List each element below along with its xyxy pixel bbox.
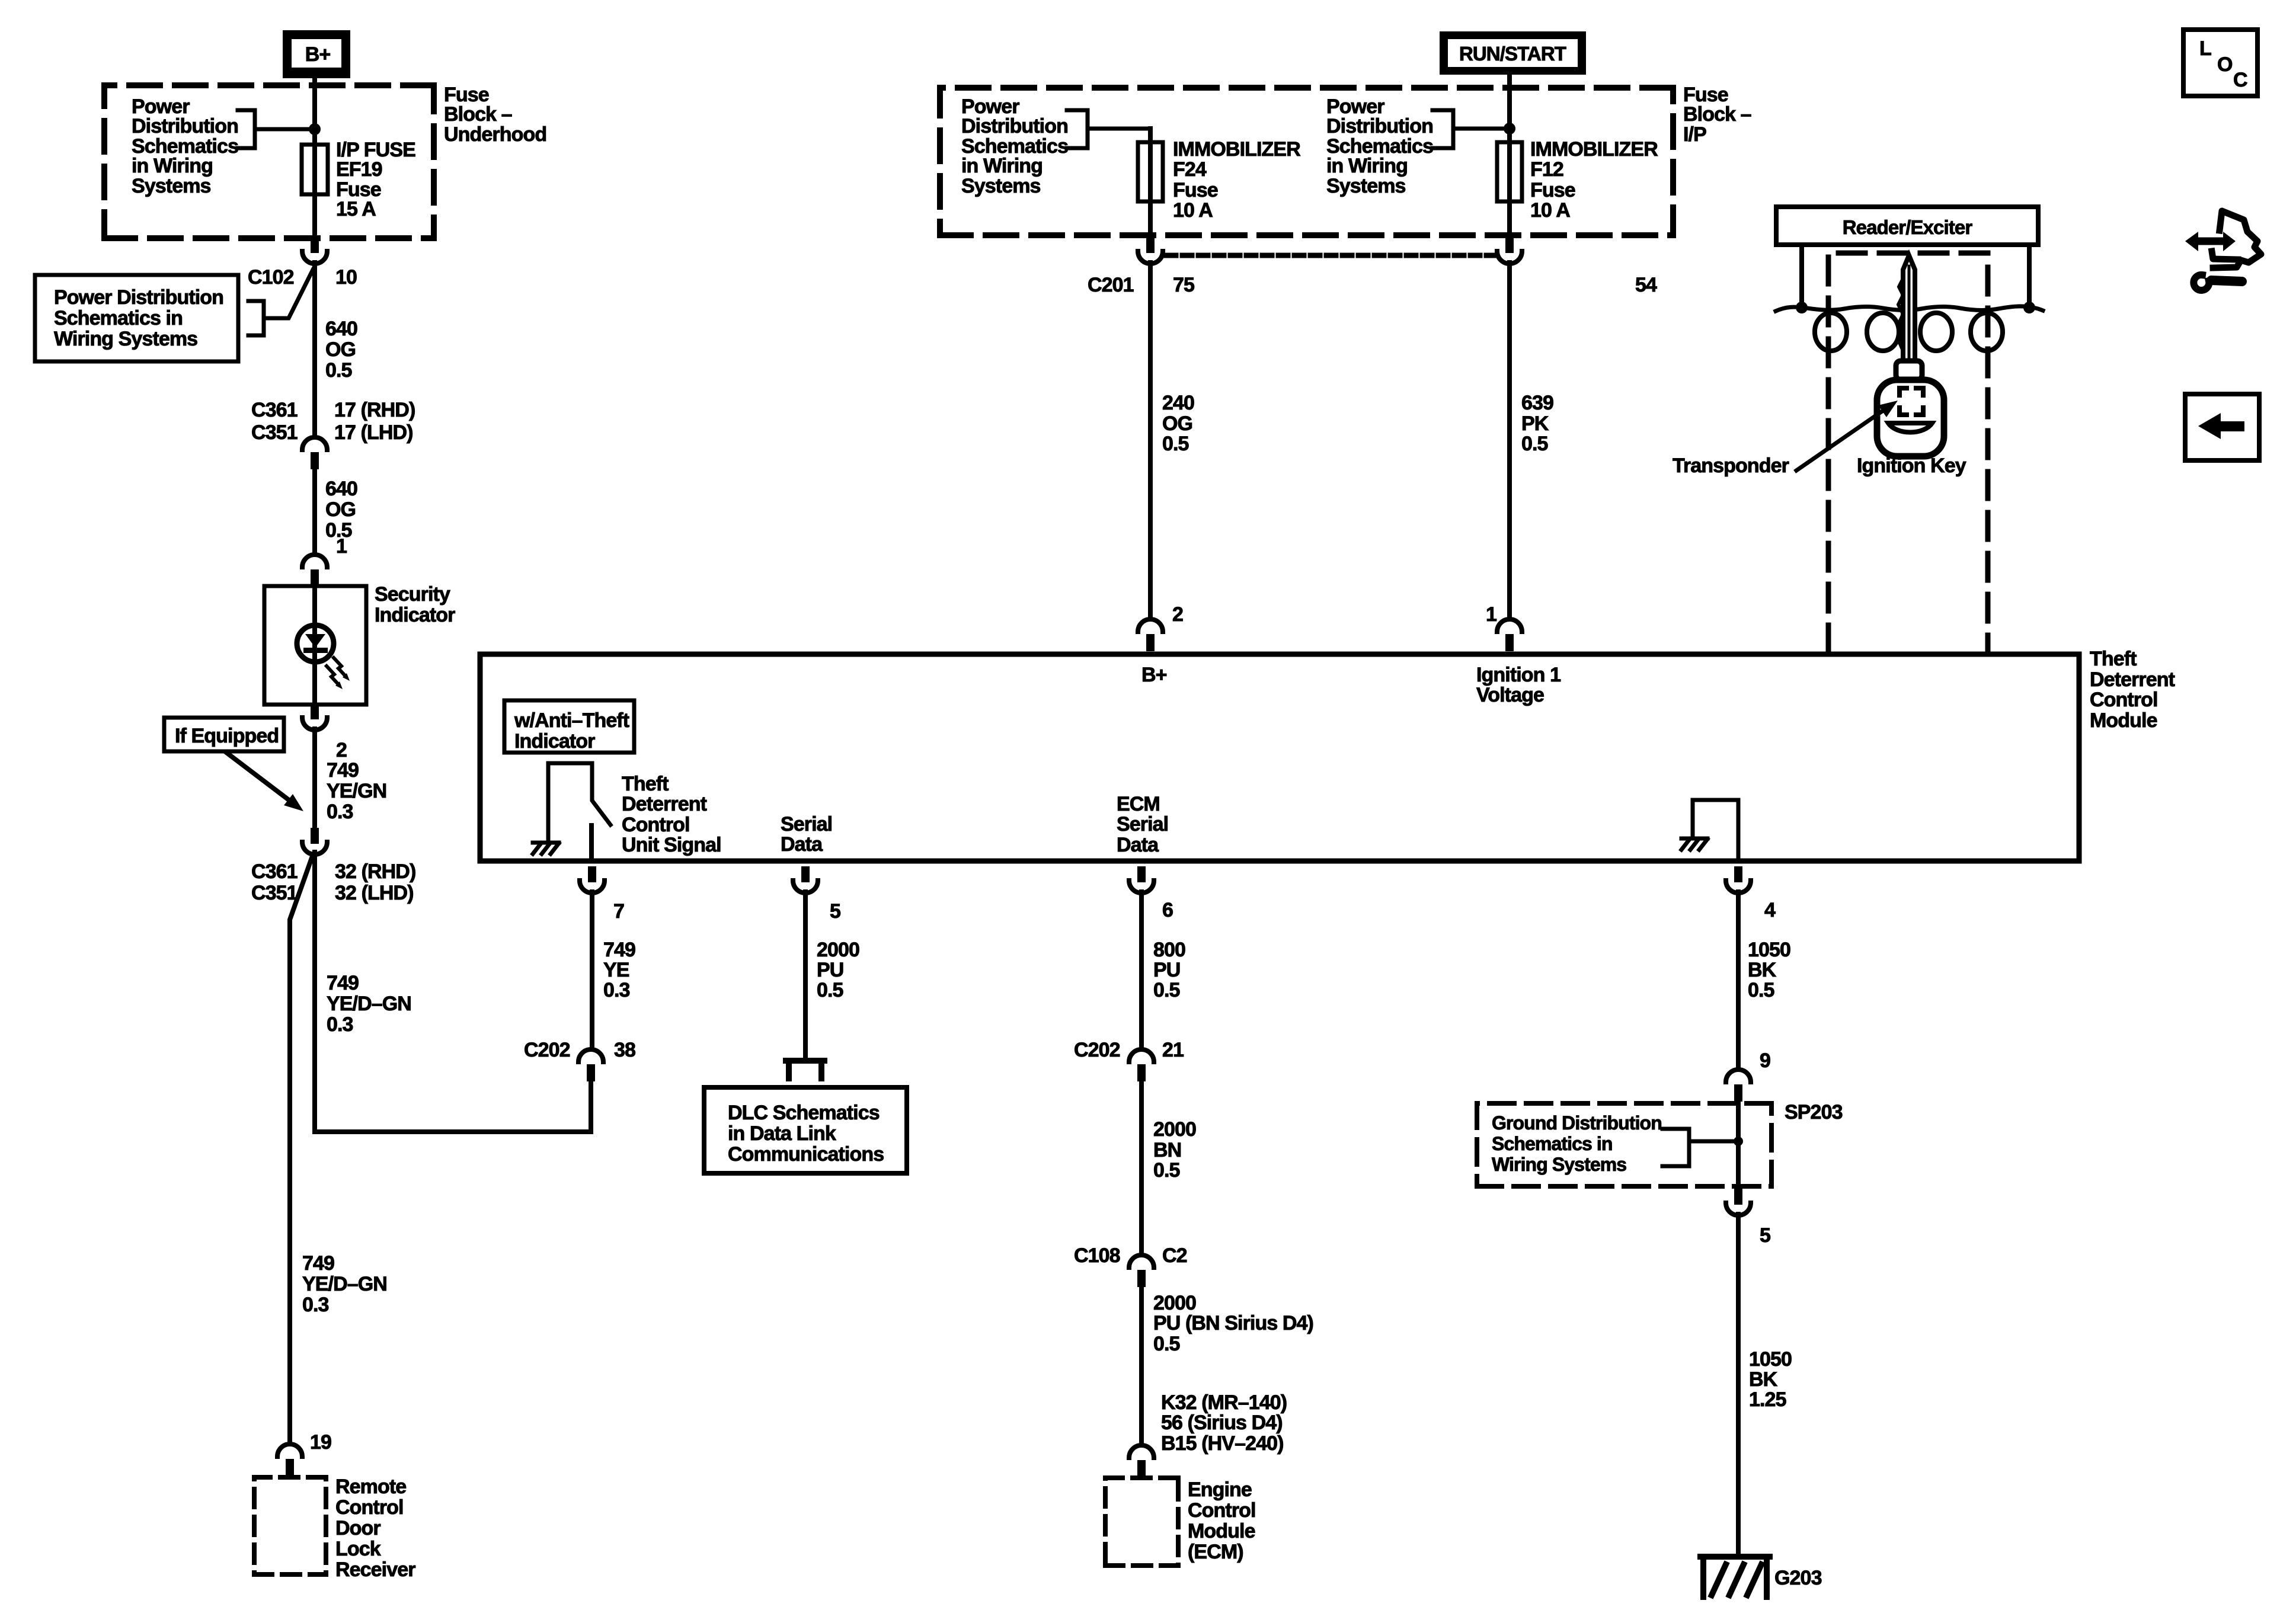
- svg-text:Ground Distribution: Ground Distribution: [1492, 1112, 1662, 1134]
- svg-text:YE/D–GN: YE/D–GN: [327, 993, 411, 1015]
- svg-text:75: 75: [1173, 274, 1194, 296]
- svg-text:Deterrent: Deterrent: [2090, 668, 2175, 691]
- svg-text:Serial: Serial: [1117, 813, 1168, 836]
- bracket and leader to C102: [248, 270, 313, 335]
- svg-text:1050: 1050: [1748, 939, 1790, 961]
- connector pin 2 module: [1138, 619, 1163, 632]
- svg-text:Remote: Remote: [335, 1475, 406, 1498]
- svg-text:0.5: 0.5: [1153, 1333, 1180, 1355]
- svg-text:Indicator: Indicator: [514, 730, 595, 753]
- connector C108 pin C2: [1129, 1255, 1154, 1267]
- svg-text:1: 1: [1486, 603, 1496, 626]
- bracket reference underhood power distribution: [238, 110, 315, 148]
- theft deterrent control module box: [480, 654, 2079, 861]
- connector pin 2 security indicator: [311, 703, 319, 719]
- svg-text:Transponder: Transponder: [1673, 454, 1789, 477]
- wire 640 OG 0.5 (C102 to C361): [312, 263, 317, 437]
- svg-text:Fuse: Fuse: [1173, 179, 1218, 201]
- svg-text:0.3: 0.3: [302, 1294, 329, 1316]
- key cuts: [1898, 279, 1903, 351]
- transponder target square: [1900, 388, 1923, 415]
- svg-text:800: 800: [1153, 939, 1185, 961]
- svg-text:Systems: Systems: [132, 175, 211, 197]
- svg-text:0.5: 0.5: [1748, 979, 1774, 1001]
- svg-text:Power Distribution: Power Distribution: [54, 286, 223, 309]
- LED arrows: [334, 658, 346, 676]
- wire reader left leg: [1799, 245, 1804, 308]
- icon double arrow: [2195, 238, 2226, 245]
- key bow: [1877, 380, 1944, 456]
- remote control door lock receiver dashed box: [254, 1477, 326, 1574]
- connector pin 6: [1137, 866, 1146, 882]
- svg-text:BK: BK: [1749, 1368, 1778, 1391]
- module internal contact pin 7: [589, 825, 594, 861]
- wire 640 OG 0.5 to security indicator: [312, 468, 317, 554]
- svg-text:38: 38: [614, 1039, 635, 1061]
- svg-text:Control: Control: [622, 814, 690, 836]
- svg-text:Distribution: Distribution: [1326, 115, 1433, 137]
- svg-text:PU: PU: [817, 959, 843, 981]
- svg-text:w/Anti–Theft: w/Anti–Theft: [514, 709, 629, 732]
- svg-text:0.5: 0.5: [817, 979, 843, 1001]
- svg-text:DLC Schematics: DLC Schematics: [728, 1102, 880, 1124]
- svg-text:Indicator: Indicator: [375, 604, 455, 626]
- svg-text:Block –: Block –: [444, 103, 512, 126]
- coil loop 2: [1867, 313, 1899, 351]
- svg-text:If Equipped: If Equipped: [175, 725, 279, 747]
- svg-text:2: 2: [336, 739, 347, 761]
- junction dot F12 feed: [1504, 123, 1515, 135]
- svg-text:B+: B+: [305, 43, 331, 66]
- svg-text:32 (LHD): 32 (LHD): [335, 882, 414, 904]
- svg-text:C: C: [2233, 69, 2247, 91]
- svg-text:Control: Control: [1188, 1499, 1256, 1522]
- svg-text:10: 10: [335, 266, 357, 289]
- fuse EF19 15A: [302, 145, 328, 194]
- wire 639 PK 0.5: [1507, 263, 1512, 619]
- svg-text:5: 5: [1760, 1224, 1770, 1247]
- if equipped note box: [164, 718, 284, 751]
- svg-text:ECM: ECM: [1117, 793, 1160, 815]
- svg-text:C102: C102: [248, 266, 294, 289]
- power symbol RUN/START: [1440, 31, 1586, 75]
- connector pin 4: [1734, 866, 1742, 882]
- svg-text:9: 9: [1760, 1049, 1770, 1072]
- icon wrench: [2193, 275, 2209, 290]
- svg-text:Schematics in: Schematics in: [1492, 1133, 1613, 1154]
- svg-text:Systems: Systems: [1326, 175, 1406, 197]
- svg-text:C361: C361: [251, 399, 298, 421]
- wire B+ to fuse EF19: [312, 78, 317, 145]
- wire through splice SP203: [1736, 1101, 1741, 1189]
- DLC schematics box: [704, 1087, 907, 1173]
- svg-text:Data: Data: [781, 833, 823, 856]
- svg-text:YE: YE: [603, 959, 629, 981]
- svg-text:640: 640: [325, 478, 357, 500]
- wire 749 YE 0.3: [590, 892, 594, 1049]
- svg-text:Engine: Engine: [1188, 1478, 1252, 1501]
- svg-text:0.5: 0.5: [1521, 433, 1548, 455]
- svg-text:0.3: 0.3: [327, 1013, 353, 1036]
- svg-text:7: 7: [613, 900, 624, 923]
- svg-text:21: 21: [1162, 1039, 1184, 1061]
- coil loop 3: [1920, 313, 1952, 351]
- svg-text:10 A: 10 A: [1530, 199, 1570, 222]
- if equipped arrow: [226, 753, 290, 801]
- svg-text:640: 640: [325, 318, 357, 340]
- svg-text:OG: OG: [325, 498, 356, 521]
- svg-text:F12: F12: [1530, 158, 1563, 181]
- svg-text:O: O: [2217, 53, 2233, 76]
- connector pin 1 security indicator: [302, 555, 327, 567]
- svg-text:Voltage: Voltage: [1476, 684, 1544, 706]
- svg-text:4: 4: [1764, 899, 1776, 921]
- svg-text:Theft: Theft: [622, 773, 669, 795]
- svg-text:Ignition Key: Ignition Key: [1857, 454, 1966, 477]
- connector C201 pin 54: [1505, 237, 1514, 253]
- wire 2000 PU 0.5: [803, 892, 808, 1061]
- svg-text:PU (BN Sirius D4): PU (BN Sirius D4): [1153, 1312, 1313, 1334]
- svg-text:IMMOBILIZER: IMMOBILIZER: [1530, 138, 1658, 161]
- svg-text:1.25: 1.25: [1749, 1388, 1786, 1411]
- svg-text:6: 6: [1162, 899, 1173, 921]
- connector C361/C351 pin 32: [311, 828, 319, 844]
- svg-text:B15 (HV–240): B15 (HV–240): [1161, 1432, 1284, 1455]
- DLC pigtail bracket: [786, 1061, 824, 1078]
- wire F24 to C201-75: [1148, 201, 1153, 237]
- wire EF19 to C102: [312, 194, 317, 237]
- exciter coil line: [1776, 306, 2043, 311]
- svg-text:C108: C108: [1074, 1244, 1120, 1267]
- svg-text:2000: 2000: [1153, 1292, 1196, 1314]
- svg-text:749: 749: [327, 759, 359, 782]
- svg-text:Data: Data: [1117, 834, 1159, 856]
- wire F12 to C201-54: [1507, 201, 1512, 237]
- power symbol B+ (battery feed): [283, 30, 350, 78]
- icon LOC box: [2183, 30, 2257, 96]
- svg-text:240: 240: [1162, 392, 1194, 414]
- ground G203 symbol: [1700, 1557, 1770, 1597]
- svg-text:YE/GN: YE/GN: [327, 780, 386, 802]
- fuse F24 10A immobilizer: [1148, 129, 1153, 142]
- svg-text:1: 1: [336, 535, 347, 558]
- wire 749 YE/D-GN to door lock receiver: [290, 854, 313, 1443]
- svg-text:L: L: [2199, 37, 2211, 60]
- svg-text:5: 5: [830, 900, 840, 923]
- connector SP203 pin 9: [1726, 1070, 1751, 1082]
- svg-text:0.3: 0.3: [327, 801, 353, 823]
- svg-text:0.5: 0.5: [1153, 979, 1180, 1001]
- svg-text:OG: OG: [325, 338, 356, 361]
- key neck: [1896, 361, 1922, 380]
- svg-text:Receiver: Receiver: [335, 1558, 415, 1581]
- bracket reference F24: [1067, 110, 1150, 148]
- svg-text:0.5: 0.5: [1153, 1159, 1180, 1182]
- connector C102 pin 10: [311, 237, 319, 253]
- junction dot EF19 feed: [309, 123, 321, 135]
- svg-text:(ECM): (ECM): [1188, 1541, 1243, 1563]
- bracket reference F12: [1432, 110, 1510, 148]
- svg-text:I/P: I/P: [1683, 123, 1706, 146]
- wire 1050 BK 1.25: [1736, 1214, 1741, 1554]
- svg-text:Distribution: Distribution: [961, 115, 1068, 137]
- wire 1050 BK 0.5: [1736, 892, 1741, 1069]
- svg-text:RUN/START: RUN/START: [1459, 43, 1566, 65]
- fuse block - I/P dashed box: [940, 88, 1673, 235]
- svg-text:Wiring Systems: Wiring Systems: [54, 328, 197, 350]
- module internal switch to ground: [548, 763, 610, 844]
- svg-text:B+: B+: [1141, 664, 1167, 686]
- svg-text:BN: BN: [1153, 1139, 1181, 1161]
- note box w/Anti-Theft Indicator: [504, 700, 634, 753]
- svg-text:0.3: 0.3: [603, 979, 630, 1001]
- wire 2000 PU (BN Sirius D4) 0.5: [1139, 1286, 1144, 1445]
- svg-text:in Wiring: in Wiring: [132, 155, 213, 177]
- svg-text:Wiring Systems: Wiring Systems: [1492, 1154, 1626, 1175]
- svg-text:F24: F24: [1173, 158, 1207, 181]
- svg-text:PU: PU: [1153, 959, 1180, 981]
- svg-text:OG: OG: [1162, 412, 1192, 435]
- svg-text:Ignition 1: Ignition 1: [1476, 664, 1560, 686]
- svg-text:EF19: EF19: [336, 158, 382, 181]
- connector ECM pin: [1129, 1445, 1154, 1458]
- svg-text:C361: C361: [251, 860, 298, 883]
- svg-text:Block –: Block –: [1683, 103, 1751, 126]
- svg-text:Control: Control: [335, 1496, 404, 1519]
- svg-text:15 A: 15 A: [336, 198, 376, 220]
- wire through security indicator: [312, 586, 317, 705]
- wire RUN/START to F12: [1507, 75, 1512, 145]
- module internal ground pin 4: [1693, 800, 1738, 861]
- svg-text:C351: C351: [251, 882, 298, 904]
- svg-text:Lock: Lock: [335, 1538, 381, 1560]
- svg-text:in Data Link: in Data Link: [728, 1122, 836, 1145]
- connector pin 5 splice out: [1734, 1189, 1742, 1205]
- svg-text:56 (Sirius D4): 56 (Sirius D4): [1161, 1411, 1283, 1434]
- svg-text:in Wiring: in Wiring: [961, 155, 1043, 177]
- svg-text:749: 749: [302, 1252, 334, 1275]
- svg-text:17 (RHD): 17 (RHD): [334, 399, 415, 421]
- wire to C361 pin 32: [312, 729, 317, 828]
- svg-text:BK: BK: [1748, 959, 1777, 981]
- svg-text:C201: C201: [1088, 274, 1134, 296]
- svg-text:IMMOBILIZER: IMMOBILIZER: [1173, 138, 1300, 161]
- coil loop 1: [1815, 313, 1847, 351]
- wire 2000 BN 0.5: [1139, 1081, 1144, 1254]
- svg-text:C351: C351: [251, 421, 298, 444]
- connector C202 pin 21: [1129, 1049, 1154, 1062]
- svg-text:G203: G203: [1774, 1567, 1822, 1589]
- svg-text:Reader/Exciter: Reader/Exciter: [1843, 216, 1973, 238]
- svg-text:1050: 1050: [1749, 1348, 1792, 1371]
- svg-text:749: 749: [603, 939, 635, 961]
- ground distribution dashed box: [1477, 1103, 1771, 1186]
- fuse F12 10A immobilizer: [1497, 142, 1522, 201]
- svg-text:Schematics in: Schematics in: [54, 307, 183, 329]
- fuse block - underhood dashed box: [104, 85, 434, 238]
- connector pin 1 module: [1497, 619, 1522, 632]
- connector pin 7: [588, 866, 596, 882]
- svg-text:Communications: Communications: [728, 1143, 884, 1166]
- svg-text:0.5: 0.5: [1162, 433, 1189, 455]
- svg-text:Underhood: Underhood: [444, 123, 546, 146]
- svg-text:54: 54: [1635, 274, 1657, 296]
- svg-text:Unit Signal: Unit Signal: [622, 834, 721, 856]
- security indicator lamp box: [264, 586, 366, 705]
- svg-text:SP203: SP203: [1785, 1101, 1843, 1124]
- svg-text:K32 (MR–140): K32 (MR–140): [1161, 1391, 1287, 1414]
- svg-text:Serial: Serial: [781, 813, 832, 836]
- connector C361/C351 pin 17: [302, 437, 327, 450]
- svg-text:C2: C2: [1162, 1244, 1187, 1267]
- key bow smile: [1888, 423, 1932, 433]
- svg-text:10 A: 10 A: [1173, 199, 1213, 222]
- svg-text:Module: Module: [1188, 1520, 1255, 1542]
- svg-text:2000: 2000: [817, 939, 859, 961]
- ground chassis right: [1681, 838, 1707, 850]
- svg-text:Theft: Theft: [2090, 648, 2137, 670]
- note box Power Distribution Schematics in Wiring Systems (left): [35, 275, 238, 361]
- svg-text:639: 639: [1521, 392, 1553, 414]
- LED symbol security indicator: [297, 625, 334, 662]
- svg-text:Fuse: Fuse: [1530, 179, 1575, 201]
- key zone dashed boundary: [1828, 253, 1988, 652]
- icon back arrow box: [2185, 394, 2259, 460]
- engine control module dashed box: [1105, 1478, 1178, 1566]
- junction dot coil left: [1796, 302, 1808, 313]
- connector pin 19 receiver: [277, 1444, 302, 1457]
- svg-text:19: 19: [310, 1431, 331, 1454]
- svg-text:749: 749: [327, 972, 359, 994]
- svg-text:32 (RHD): 32 (RHD): [335, 860, 415, 883]
- svg-text:Deterrent: Deterrent: [622, 793, 707, 815]
- svg-text:17 (LHD): 17 (LHD): [334, 421, 413, 444]
- svg-text:Systems: Systems: [961, 175, 1041, 197]
- svg-text:2000: 2000: [1153, 1118, 1196, 1141]
- svg-text:C202: C202: [1074, 1039, 1120, 1061]
- transponder arrow: [1796, 409, 1885, 470]
- svg-text:0.5: 0.5: [325, 359, 352, 382]
- svg-text:PK: PK: [1521, 412, 1549, 435]
- ignition key blade: [1903, 255, 1915, 369]
- connector C201 dotted link: [1166, 253, 1494, 258]
- wire 749 YE to C202-38 (down, right, up): [315, 852, 591, 1132]
- icon data exchange animal head: [2213, 211, 2261, 268]
- wire 240 OG 0.5: [1148, 263, 1153, 619]
- svg-text:2: 2: [1172, 603, 1183, 626]
- wire 800 PU 0.5: [1139, 892, 1144, 1049]
- junction dot coil right: [2023, 302, 2035, 313]
- svg-text:Module: Module: [2090, 709, 2157, 732]
- svg-text:Control: Control: [2090, 689, 2158, 711]
- wire reader right leg: [2027, 245, 2032, 308]
- junction dot SP203: [1734, 1137, 1743, 1146]
- svg-text:Door: Door: [335, 1517, 380, 1539]
- coil loop 4: [1971, 313, 2003, 351]
- svg-text:YE/D–GN: YE/D–GN: [302, 1273, 387, 1295]
- connector C201 pin 75: [1146, 237, 1155, 253]
- connector pin 5: [801, 866, 810, 882]
- svg-text:Security: Security: [375, 583, 450, 606]
- svg-text:in Wiring: in Wiring: [1326, 155, 1408, 177]
- reader/exciter box: [1776, 207, 2038, 245]
- svg-text:Distribution: Distribution: [132, 115, 238, 137]
- ground chassis left: [533, 843, 559, 854]
- svg-text:C202: C202: [524, 1039, 570, 1061]
- bracket ground distribution: [1662, 1129, 1738, 1166]
- connector C202 pin 38: [578, 1049, 603, 1062]
